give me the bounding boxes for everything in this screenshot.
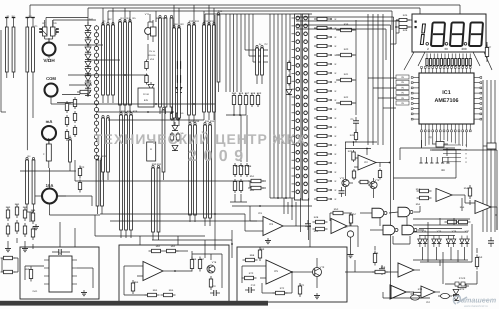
- svg-text:ЖК: ЖК: [441, 169, 445, 172]
- wire bank mesh: [413, 218, 468, 236]
- svg-text:R11: R11: [195, 20, 200, 23]
- svg-text:R31: R31: [157, 163, 162, 166]
- jack 10A: [34, 168, 101, 215]
- resistor group-C4 strip 1: [189, 122, 192, 222]
- wire feed tr2: [296, 21, 399, 33]
- resistor Rsh2: [78, 180, 81, 193]
- resistor group-A3 strip 2: [107, 115, 110, 180]
- svg-text:R67: R67: [200, 258, 205, 261]
- wire box1: [25, 266, 93, 288]
- wire vertical feed 1: [390, 30, 392, 296]
- box subcircuit 3: [237, 247, 347, 302]
- svg-text:R68: R68: [250, 254, 255, 257]
- wire br top: [430, 150, 497, 230]
- diode protection D8: [85, 76, 91, 81]
- resistor range Ra1: [232, 93, 235, 107]
- resistor chain Rb2: [65, 115, 68, 127]
- resistor chain Ra2: [73, 111, 76, 123]
- resistor R92: [242, 276, 257, 279]
- resistor R90: [243, 258, 258, 261]
- diode protection D3: [85, 40, 91, 45]
- svg-text:R42: R42: [344, 96, 349, 99]
- jack V/OHM: [43, 38, 56, 63]
- resistor R60: [352, 142, 355, 162]
- resistor seg R20: [314, 188, 337, 192]
- resistor group-A4 strip 1: [120, 112, 123, 238]
- svg-text:COM: COM: [46, 76, 56, 81]
- resistor group-C strip 1: [173, 25, 176, 126]
- resistor R62: [378, 163, 381, 180]
- svg-text:R60: R60: [25, 268, 30, 271]
- ground left net3: [33, 224, 39, 230]
- resistor Rm1: [145, 60, 148, 71]
- watermark line1: [94, 131, 306, 147]
- resistor strip D2b: [261, 45, 264, 84]
- resistor R32: [338, 78, 357, 81]
- IC U1 top pins: [421, 67, 472, 74]
- svg-text:R: R: [335, 144, 337, 147]
- wire h interconnect 5: [70, 103, 215, 105]
- svg-text:R26: R26: [31, 209, 36, 212]
- resistor R81: [149, 249, 164, 252]
- svg-text:R53: R53: [416, 188, 421, 191]
- resistor seg R4: [314, 44, 337, 48]
- wire u11 link: [462, 198, 497, 215]
- diode protection D5: [85, 54, 91, 59]
- svg-text:VT3: VT3: [375, 179, 380, 182]
- cluster diodes mid: [170, 111, 184, 151]
- wire r-col: [336, 20, 356, 115]
- wire u11: [458, 195, 497, 230]
- svg-text:R18: R18: [251, 92, 256, 95]
- resistor group-A2 strip 2: [124, 19, 127, 112]
- wire bus-D 1: [225, 14, 227, 92]
- transistor Q4: [368, 178, 377, 198]
- svg-text:R62: R62: [171, 245, 176, 248]
- jack COM: [45, 76, 71, 104]
- resistor R bl2: [1, 270, 16, 273]
- capacitor C9: [210, 290, 220, 296]
- LCD pin label rows: [443, 144, 467, 164]
- wire fan right: [473, 52, 492, 70]
- svg-text:IN: IN: [401, 76, 404, 79]
- wire seg-bus joins: [270, 197, 294, 199]
- svg-text:R: R: [335, 171, 337, 174]
- wire stair 2: [249, 14, 268, 56]
- svg-text:R43: R43: [350, 134, 355, 137]
- svg-text:RT: RT: [42, 22, 46, 25]
- resistor R network b2: [15, 220, 18, 234]
- svg-text:R46: R46: [403, 29, 408, 32]
- resistor Rch1: [77, 90, 91, 93]
- resistor R31: [338, 53, 357, 56]
- resistor seg R3: [314, 35, 337, 39]
- wire IC feed v2: [372, 14, 374, 145]
- wire bank bottom: [413, 247, 468, 266]
- wire IC bottom fan: [422, 132, 467, 147]
- buzzer BA1: [145, 22, 152, 40]
- resistor R33: [338, 101, 357, 104]
- svg-text:R: R: [335, 81, 337, 84]
- display minus dots: [415, 21, 417, 29]
- resistor chain Ra1: [73, 97, 76, 109]
- svg-text:ТЕХНИЧЕСКИЙ ЦЕНТР ЖКХ: ТЕХНИЧЕСКИЙ ЦЕНТР ЖКХ: [94, 131, 306, 147]
- capacitor C7: [305, 220, 311, 230]
- wire u3 in: [245, 206, 257, 231]
- svg-text:R: R: [335, 90, 337, 93]
- wire shunt h1: [20, 170, 76, 172]
- wire u4 out: [357, 226, 359, 247]
- diode VD1: [51, 20, 57, 39]
- wire seg-bus 1: [269, 14, 271, 198]
- svg-text:R: R: [335, 153, 337, 156]
- wire right edge 2: [486, 80, 488, 232]
- wire shunt bottom: [27, 212, 34, 222]
- capacitor C6: [339, 187, 345, 197]
- diode Dm2: [176, 87, 182, 92]
- resistor Rm3: [177, 55, 180, 71]
- label box LB1: [138, 88, 154, 107]
- resistor R86: [190, 257, 193, 272]
- gate G1: [372, 208, 387, 218]
- rotary switch contact ring ladder: [94, 25, 98, 160]
- svg-text:VD: VD: [180, 112, 183, 115]
- wire top bus 1: [27, 5, 460, 18]
- diode pair VD4: [460, 236, 470, 248]
- oval component E1: [438, 293, 452, 298]
- svg-text:C10: C10: [251, 284, 256, 287]
- wire jack top: [45, 18, 96, 43]
- display digit 1: [420, 24, 425, 45]
- resistor group-C4 strip 2: [194, 122, 197, 222]
- capacitor C11: [379, 265, 385, 275]
- resistor R63: [358, 180, 370, 183]
- resistor group-A3 strip 1: [102, 115, 105, 180]
- wire left strips drop: [27, 78, 33, 150]
- svg-text:IC5: IC5: [274, 270, 279, 273]
- watermark line2: [188, 148, 250, 165]
- source G1 circle: [347, 231, 353, 252]
- wire fan bus: [232, 205, 312, 207]
- wire feed tr4: [296, 29, 386, 60]
- svg-text:R: R: [335, 180, 337, 183]
- wire bus-D 3: [233, 14, 235, 92]
- box subcircuit 2: [119, 245, 229, 303]
- transistor Q5: [207, 265, 215, 273]
- svg-text:IN: IN: [401, 81, 404, 84]
- resistor range Rc2: [239, 179, 242, 193]
- svg-text:R18 1k: R18 1k: [149, 54, 157, 57]
- svg-text:R51: R51: [250, 175, 255, 178]
- resistor R100: [417, 189, 432, 192]
- resistor input divider strip 4: [31, 18, 35, 79]
- crystal ZQ1: [432, 142, 448, 148]
- display dp2: [445, 43, 448, 46]
- wire range drop: [241, 115, 247, 162]
- svg-text:R25: R25: [23, 206, 28, 209]
- ground source: [348, 252, 354, 258]
- resistor seg R2: [314, 26, 337, 30]
- svg-text:R: R: [335, 72, 337, 75]
- resistor strip B3: [152, 165, 155, 240]
- wire box1 feed: [60, 222, 75, 247]
- resistor group-A2 strip 1: [119, 19, 122, 112]
- svg-text:R52: R52: [250, 189, 255, 192]
- resistor group-C3 strip 1: [203, 22, 206, 120]
- op-amp U12: [398, 263, 420, 277]
- resistor R85: [161, 293, 176, 296]
- resistor group-C2 strip 1: [188, 22, 191, 123]
- resistor range Rb2: [239, 163, 242, 177]
- svg-text:R: R: [335, 162, 337, 165]
- svg-text:R69: R69: [260, 248, 265, 251]
- svg-text:R: R: [335, 135, 337, 138]
- wire h interconnect 7: [100, 213, 245, 215]
- wire bus-D 2: [229, 14, 231, 92]
- resistor seg R5: [314, 53, 337, 57]
- svg-text:63V: 63V: [144, 99, 149, 102]
- wire network joins: [8, 238, 33, 249]
- resistor R104: [372, 270, 388, 273]
- wire fb join: [250, 181, 266, 188]
- svg-text:R49: R49: [314, 230, 319, 233]
- svg-text:R23: R23: [6, 206, 11, 209]
- gate G3: [383, 225, 398, 235]
- wire seg-bus 5: [285, 14, 287, 198]
- resistor seg R13: [314, 125, 337, 129]
- wire shunt h2: [57, 196, 92, 206]
- resistor Rlad2: [287, 75, 290, 86]
- resistor Rm2: [145, 74, 148, 85]
- resistor segment bodies: [426, 59, 471, 66]
- capacitor C1: [39, 28, 42, 33]
- wire seg-bus 3: [277, 14, 279, 198]
- svg-text:200: 200: [461, 47, 466, 51]
- wire IC feed v3: [377, 14, 379, 145]
- svg-text:R74: R74: [418, 288, 423, 291]
- resistor R95: [373, 246, 376, 266]
- wire IC feed v1: [367, 14, 369, 145]
- resistor R61: [352, 169, 355, 180]
- resistor strip B5: [162, 107, 165, 180]
- capacitor C12: [488, 237, 494, 247]
- wire h interconnect 4: [97, 111, 175, 113]
- resistor R30: [338, 28, 357, 31]
- wire range row1 bottom: [226, 107, 246, 116]
- wire chain2: [147, 44, 149, 60]
- diode protection D10: [85, 90, 91, 95]
- resistor R102: [445, 220, 471, 223]
- svg-text:R37: R37: [241, 165, 246, 168]
- resistor R70: [248, 179, 264, 182]
- svg-text:R56: R56: [464, 187, 469, 190]
- svg-text:R75: R75: [460, 288, 465, 291]
- diode pair VD2: [432, 236, 442, 248]
- svg-text:R57: R57: [352, 213, 357, 216]
- diode protection D4: [85, 47, 91, 52]
- wire disp left drop: [391, 33, 397, 44]
- gate G2: [398, 207, 413, 217]
- resistor input divider strip 3: [26, 18, 30, 79]
- wire ladder bottom: [284, 198, 309, 240]
- resistor range Ra4: [250, 93, 253, 107]
- resistor group-A2 strip 3: [129, 19, 132, 112]
- svg-text:30: 30: [444, 47, 448, 51]
- resistor R107: [455, 284, 469, 287]
- svg-text:DA1: DA1: [33, 290, 38, 293]
- diode protection D6: [85, 61, 91, 66]
- resistor seg R17: [314, 161, 337, 165]
- svg-text:R: R: [335, 126, 337, 129]
- resistor R93: [298, 283, 301, 297]
- transistor Q3: [342, 179, 353, 196]
- svg-text:R: R: [335, 36, 337, 39]
- svg-text:R41: R41: [344, 73, 349, 76]
- capacitor C8: [52, 249, 70, 255]
- wire mid-right loop: [394, 150, 457, 178]
- wire bus-D 5: [240, 14, 242, 92]
- wire IC feed v4: [382, 14, 384, 145]
- resistor seg R19: [314, 179, 337, 183]
- wire br right: [445, 271, 477, 284]
- resistor R101: [417, 196, 432, 199]
- resistor strip B2b: [170, 15, 173, 114]
- diode Dm1: [148, 82, 154, 90]
- wire seg-bus 4: [281, 14, 283, 198]
- resistor R network c2: [23, 223, 26, 237]
- wire chain h wires: [57, 85, 92, 104]
- svg-text:R29: R29: [133, 110, 138, 113]
- wire u2 top rails: [345, 141, 377, 149]
- svg-text:IC2: IC2: [364, 161, 368, 164]
- resistor group-A strip 2: [107, 22, 110, 103]
- diode protection D7: [85, 69, 91, 74]
- svg-text:VT1: VT1: [145, 13, 150, 16]
- resistor R94: [273, 291, 288, 294]
- svg-text:mA: mA: [46, 119, 53, 124]
- resistor range Rb3: [245, 163, 248, 177]
- resistor R41: [396, 26, 410, 29]
- svg-text:V/ΩH: V/ΩH: [43, 58, 55, 63]
- resistor strip B4: [157, 165, 160, 240]
- wire box2 c: [192, 254, 222, 288]
- wire u2 left rail: [346, 142, 368, 180]
- aux box top-right: [483, 143, 496, 149]
- display frame HG1: [412, 14, 486, 52]
- svg-text:ZQ: ZQ: [428, 136, 431, 139]
- resistor range Ra2: [238, 93, 241, 107]
- resistor seg R10: [314, 98, 337, 102]
- svg-text:R50: R50: [334, 208, 339, 211]
- svg-text:R36: R36: [235, 165, 240, 168]
- resistor shunt strip 1: [26, 157, 29, 212]
- IC U1 label: [435, 90, 459, 104]
- svg-text:10 nF: 10 nF: [143, 93, 150, 96]
- svg-text:R73: R73: [374, 252, 379, 255]
- resistor Rm4: [177, 74, 180, 85]
- wire q pair: [148, 14, 153, 22]
- wire interbox: [205, 230, 233, 258]
- wire h interconnect 2: [88, 59, 120, 61]
- resistor range Ra3: [244, 93, 247, 107]
- wire u3 out: [309, 225, 311, 247]
- wire stair 1: [245, 14, 268, 50]
- resistor segment comb: [427, 54, 470, 67]
- wire h interconnect 6: [108, 119, 204, 121]
- wire bus-D 4: [236, 14, 238, 92]
- op-amp U2 IC2: [354, 155, 390, 170]
- ground left net1: [5, 246, 11, 252]
- IC U1 right pins: [474, 77, 482, 120]
- wire right edge 4: [494, 80, 496, 232]
- wire top bus 3: [108, 11, 392, 30]
- wire gates1: [360, 206, 420, 213]
- diode protection D2: [85, 33, 91, 38]
- capacitor C10: [245, 287, 255, 293]
- connector ladder XS2: [302, 14, 309, 200]
- svg-text:R47: R47: [487, 46, 492, 49]
- resistor range Rc1: [233, 179, 236, 193]
- wire h interconnect 1: [68, 44, 103, 46]
- svg-text:IC3: IC3: [269, 223, 274, 226]
- IC U1 bottom pins: [421, 124, 472, 132]
- display dp3: [464, 43, 467, 46]
- wire br verticals: [420, 222, 472, 284]
- resistor R network d1: [31, 210, 34, 224]
- IC U1 left pins: [411, 77, 419, 120]
- svg-text:VT2: VT2: [340, 177, 345, 180]
- wire long feedback: [75, 160, 250, 181]
- resistor R87: [198, 257, 201, 272]
- resistor R82: [164, 249, 179, 252]
- op-amp U4: [331, 219, 358, 234]
- svg-text:R55: R55: [460, 206, 465, 209]
- resistor R network b1: [15, 204, 18, 218]
- resistor R73: [313, 227, 328, 230]
- wire fan left: [404, 52, 425, 70]
- svg-text:R59: R59: [478, 256, 483, 259]
- svg-text:R70: R70: [249, 272, 254, 275]
- LCD contact row: [419, 157, 449, 172]
- svg-text:ST-09: ST-09: [459, 277, 466, 280]
- resistor group-A strip 1: [102, 22, 105, 103]
- label rows mid: [149, 50, 157, 61]
- resistor R network a1: [6, 207, 9, 221]
- svg-text:VT4: VT4: [422, 230, 427, 233]
- svg-text:AME7106: AME7106: [435, 98, 459, 104]
- svg-text:R: R: [150, 148, 152, 151]
- svg-text:R16: R16: [239, 92, 244, 95]
- wire top bus 2: [88, 8, 420, 25]
- fuse FU1: [43, 138, 51, 168]
- wire v stub a: [103, 5, 209, 28]
- display digit 8c: [469, 23, 483, 47]
- resistor R71: [248, 186, 264, 189]
- resistor R103: [349, 212, 352, 226]
- resistor seg R16: [314, 152, 337, 156]
- wire vertical feed 2: [393, 30, 395, 200]
- svg-text:R66: R66: [192, 258, 197, 261]
- svg-text:R38: R38: [247, 165, 252, 168]
- wire h interconnect 3: [68, 74, 148, 76]
- wire gates2: [370, 229, 424, 231]
- diode pair br: [453, 289, 459, 300]
- wire feed tr1: [296, 17, 394, 30]
- resistor chain Rb3: [65, 129, 68, 141]
- svg-text:IN: IN: [401, 86, 404, 89]
- wire box3: [242, 266, 293, 293]
- wire gate drop: [380, 217, 410, 244]
